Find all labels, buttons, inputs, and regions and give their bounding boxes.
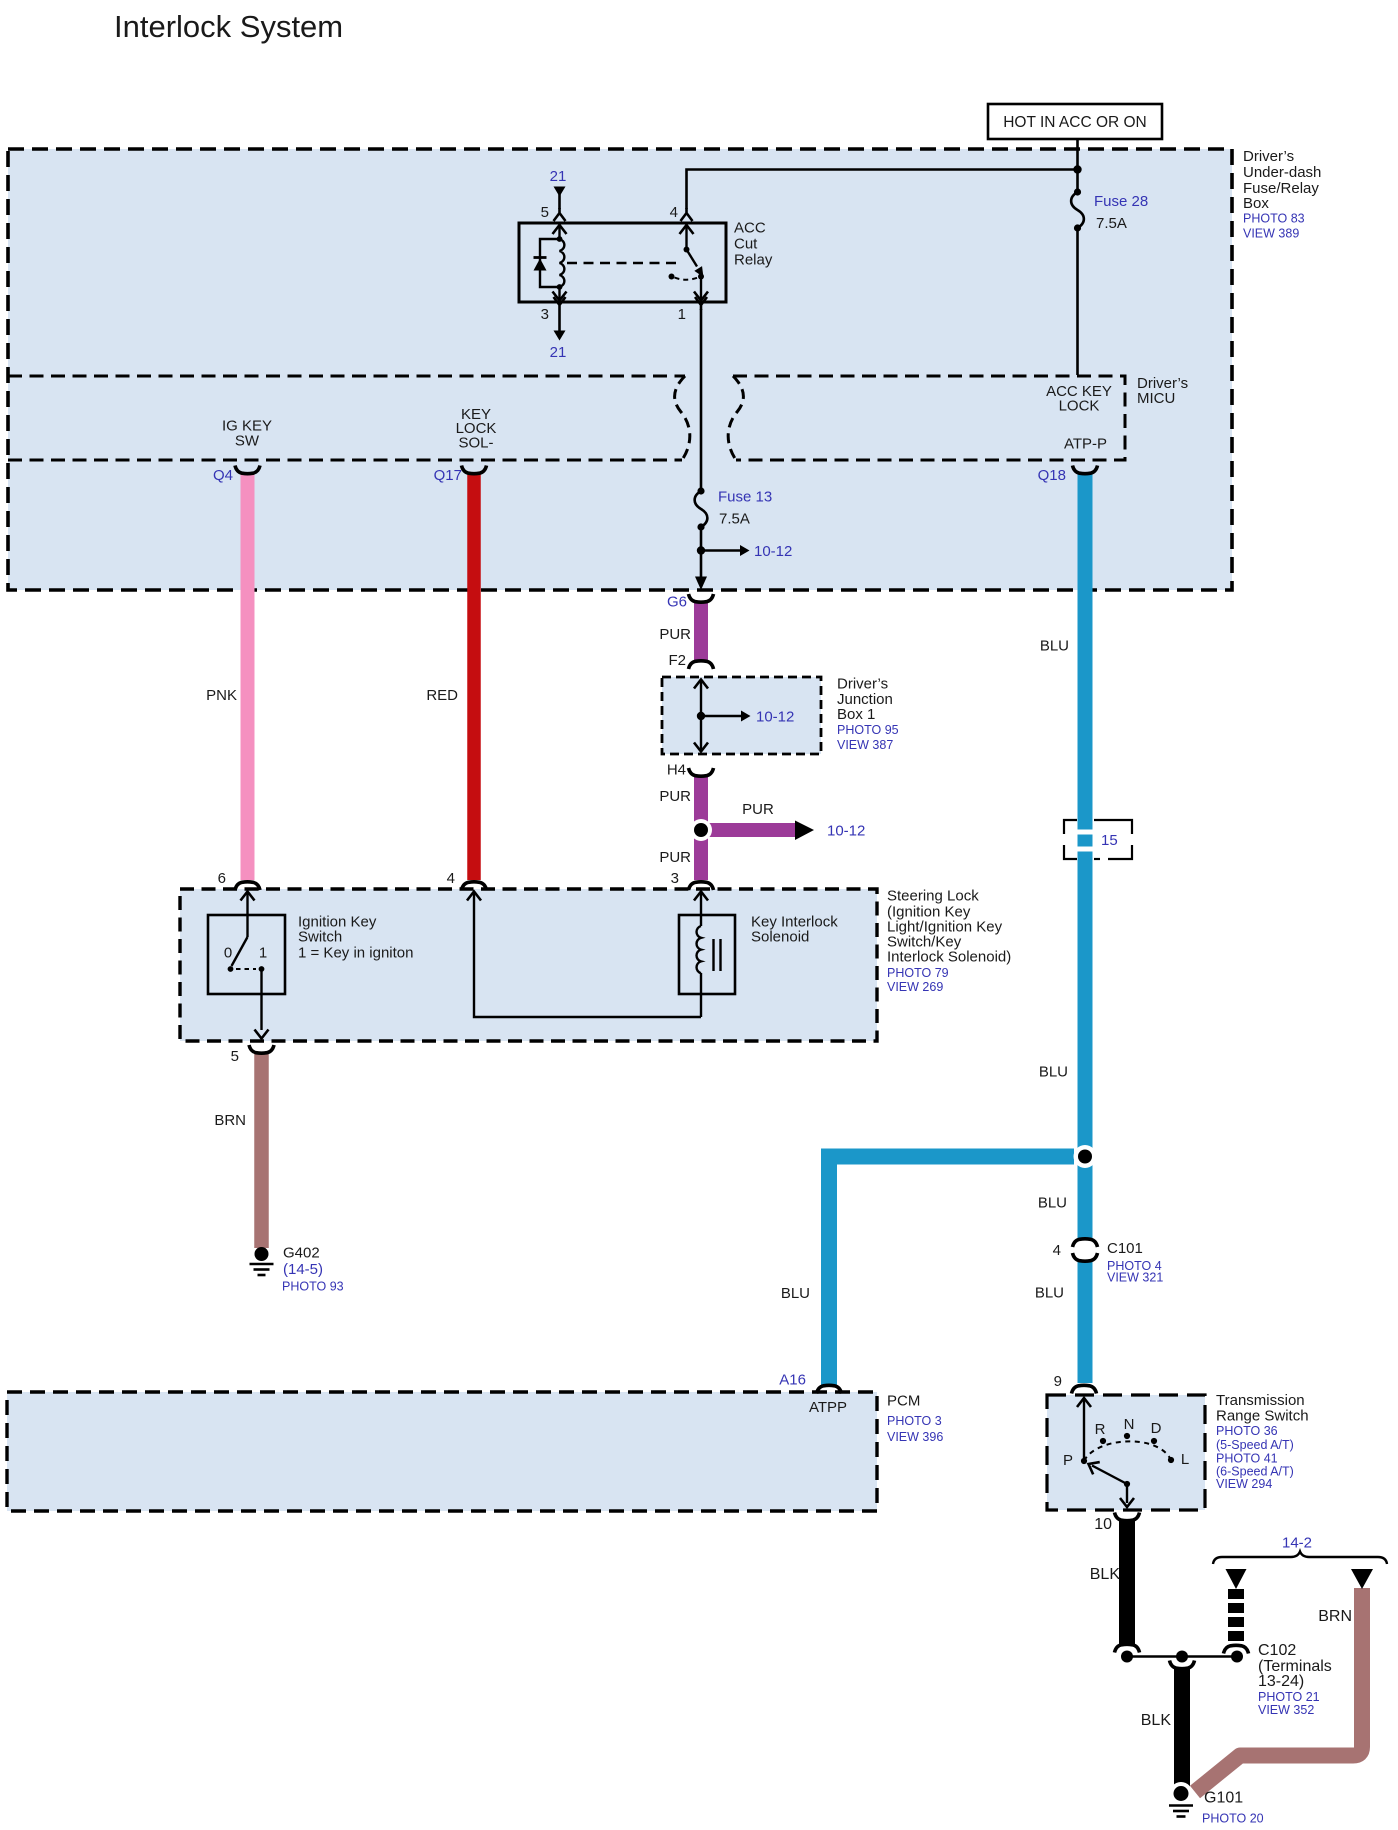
- svg-text:L: L: [1181, 1451, 1189, 1468]
- svg-text:Interlock Solenoid): Interlock Solenoid): [887, 949, 1011, 966]
- relay pin 1 connector: [695, 297, 707, 310]
- connector Transmission Range Switch pin 10: [1115, 1513, 1140, 1521]
- svg-text:1: 1: [259, 945, 267, 962]
- arrowhead BRN from 14-2: [1351, 1569, 1373, 1589]
- ground G101: [1169, 1782, 1193, 1817]
- svg-text:14-2: 14-2: [1282, 1535, 1312, 1552]
- svg-text:VIEW 387: VIEW 387: [837, 738, 893, 752]
- svg-text:13-24): 13-24): [1258, 1673, 1304, 1690]
- connector G6: [689, 594, 714, 602]
- svg-text:BLU: BLU: [1039, 1064, 1068, 1081]
- label Transmission Range Switch: [1216, 1392, 1309, 1491]
- wire PUR G6 to F2: [694, 602, 708, 661]
- svg-text:0: 0: [224, 945, 232, 962]
- svg-text:10-12: 10-12: [756, 709, 794, 726]
- svg-text:Transmission: Transmission: [1216, 1392, 1305, 1409]
- wire BLU Q18 to C101: [1078, 474, 1093, 1238]
- svg-text:PHOTO 20: PHOTO 20: [1202, 1812, 1264, 1826]
- wire BLU branch junction to PCM A16: [829, 1157, 1074, 1387]
- svg-text:21: 21: [550, 344, 567, 361]
- label Driver's Junction Box 1: [837, 676, 899, 753]
- svg-text:MICU: MICU: [1137, 390, 1175, 407]
- svg-text:BLU: BLU: [1040, 638, 1069, 655]
- label connector C101: [1053, 1240, 1164, 1285]
- connector Q4: [235, 466, 260, 474]
- node 10-12 tap below Fuse 13: [697, 545, 750, 556]
- svg-text:3: 3: [671, 870, 679, 887]
- arrow into G6: [695, 577, 707, 591]
- connector Q17: [462, 466, 487, 474]
- box Driver's Junction Box 1: [662, 677, 821, 754]
- svg-text:R: R: [1095, 1421, 1106, 1438]
- connector Q18: [1073, 466, 1098, 474]
- svg-text:1: 1: [678, 306, 686, 323]
- svg-text:Fuse 28: Fuse 28: [1094, 193, 1148, 210]
- connector F2: [689, 661, 714, 669]
- svg-text:PCM: PCM: [887, 1393, 920, 1410]
- svg-text:G6: G6: [667, 594, 687, 611]
- svg-text:ATPP: ATPP: [809, 1399, 847, 1416]
- wire C102 striped segment from 14-2: [1226, 1569, 1247, 1641]
- label Driver's MICU: [1137, 375, 1188, 407]
- fuse Fuse 28 7.5A: [1071, 188, 1084, 231]
- svg-text:PHOTO 95: PHOTO 95: [837, 723, 899, 737]
- label Steering Lock pins: [218, 870, 679, 887]
- svg-text:D: D: [1151, 1420, 1162, 1437]
- svg-text:4: 4: [447, 870, 455, 887]
- svg-text:5: 5: [231, 1048, 239, 1065]
- label Ignition Key Switch: [298, 914, 414, 962]
- svg-text:9: 9: [1054, 1373, 1062, 1390]
- svg-text:VIEW 352: VIEW 352: [1258, 1703, 1314, 1717]
- label Steering Lock: [887, 888, 1011, 995]
- wire Fuse 13 to G6 with 10-12 tap: [700, 527, 703, 578]
- svg-text:(5-Speed A/T): (5-Speed A/T): [1216, 1438, 1294, 1452]
- svg-text:Under-dash: Under-dash: [1243, 164, 1321, 181]
- svg-text:Q17: Q17: [434, 467, 462, 484]
- svg-text:1 = Key in igniton: 1 = Key in igniton: [298, 945, 414, 962]
- svg-text:4: 4: [670, 204, 678, 221]
- box PCM: [7, 1392, 877, 1511]
- label ACC Cut Relay: [734, 220, 773, 269]
- wire RED Q17 to Key Interlock Solenoid pin 4: [467, 474, 481, 880]
- label gear positions: [1063, 1416, 1189, 1469]
- ground G402: [250, 1247, 274, 1275]
- connector A16: [817, 1385, 842, 1393]
- svg-text:Box 1: Box 1: [837, 706, 875, 723]
- connector Steering Lock pin 5: [249, 1045, 274, 1053]
- svg-text:BLK: BLK: [1141, 1712, 1172, 1729]
- box Transmission Range Switch: [1047, 1395, 1205, 1510]
- wire BLK splice to G101: [1174, 1669, 1190, 1787]
- svg-text:BLU: BLU: [781, 1285, 810, 1302]
- junction dot at Fuse 28 tap: [1073, 165, 1081, 173]
- svg-text:3: 3: [541, 306, 549, 323]
- connector BLK wire end at splice: [1115, 1644, 1140, 1652]
- junction dot PUR with white ring: [690, 819, 712, 841]
- wire Fuse 28 to MICU ACC KEY LOCK: [1076, 228, 1079, 375]
- svg-text:ACC: ACC: [734, 220, 766, 237]
- svg-text:A16: A16: [779, 1372, 806, 1389]
- svg-text:5: 5: [541, 204, 549, 221]
- label Key Interlock Solenoid: [751, 914, 838, 946]
- svg-text:BLK: BLK: [1090, 1566, 1121, 1583]
- svg-text:PHOTO 3: PHOTO 3: [887, 1414, 942, 1428]
- svg-text:VIEW 396: VIEW 396: [887, 1430, 943, 1444]
- node HOT IN ACC OR ON: [988, 104, 1162, 139]
- label Driver's Under-dash Fuse/Relay Box: [1243, 148, 1321, 241]
- svg-text:SW: SW: [235, 433, 260, 450]
- svg-text:PHOTO 79: PHOTO 79: [887, 966, 949, 980]
- svg-text:F2: F2: [668, 652, 686, 669]
- connector Steering Lock pin 4: [462, 882, 487, 890]
- svg-text:PUR: PUR: [742, 801, 774, 818]
- svg-text:PNK: PNK: [206, 687, 237, 704]
- svg-text:PUR: PUR: [659, 626, 691, 643]
- relay coil: [553, 225, 567, 301]
- svg-text:10: 10: [1094, 1516, 1112, 1533]
- svg-text:Switch: Switch: [298, 929, 342, 946]
- svg-text:PUR: PUR: [659, 788, 691, 805]
- svg-text:G101: G101: [1204, 1790, 1243, 1807]
- svg-text:Cut: Cut: [734, 236, 758, 253]
- svg-text:PHOTO 41: PHOTO 41: [1216, 1452, 1278, 1466]
- svg-text:VIEW 321: VIEW 321: [1107, 1271, 1163, 1285]
- wire BRN from 14-2 to G101: [1195, 1588, 1362, 1792]
- relay pin 3 connector and 21 arrow: [554, 297, 566, 341]
- wire horizontal feed to relay pin 4: [687, 170, 1078, 210]
- wire splice line at C102: [1127, 1655, 1237, 1657]
- box Driver's Under-dash Fuse/Relay Box: [8, 149, 1232, 590]
- svg-text:4: 4: [1053, 1242, 1061, 1259]
- switch Transmission Range Switch contacts: [1077, 1398, 1174, 1507]
- label C102: [1258, 1642, 1332, 1717]
- svg-text:LOCK: LOCK: [1059, 398, 1100, 415]
- connector 15 brackets: [1064, 820, 1132, 859]
- label G101: [1202, 1790, 1264, 1826]
- box Steering Lock: [180, 889, 877, 1041]
- junction box internal wire with 10-12 tap: [694, 679, 751, 752]
- svg-text:Q4: Q4: [213, 467, 233, 484]
- label relay pin numbers: [541, 204, 686, 323]
- svg-text:Box: Box: [1243, 195, 1269, 212]
- svg-text:Range Switch: Range Switch: [1216, 1408, 1309, 1425]
- svg-text:C102: C102: [1258, 1642, 1296, 1659]
- svg-text:VIEW 389: VIEW 389: [1243, 227, 1299, 241]
- svg-text:Fuse 13: Fuse 13: [718, 489, 772, 506]
- svg-text:P: P: [1063, 1452, 1073, 1469]
- relay pin 5 connector and 21 arrow: [554, 187, 566, 222]
- relay ACC Cut Relay: [519, 223, 726, 302]
- relay clamping diode D1: [534, 239, 560, 287]
- wire PUR H4 to junction: [694, 776, 708, 830]
- svg-text:Driver’s: Driver’s: [1243, 148, 1294, 165]
- splice dots: [1121, 1651, 1133, 1663]
- svg-text:SOL-: SOL-: [458, 435, 493, 452]
- black arrowhead PUR 10-12: [795, 821, 814, 841]
- connector H4: [689, 768, 714, 776]
- svg-text:H4: H4: [667, 762, 686, 779]
- wire BLK Transmission Range Switch pin 10 to C102 splice: [1119, 1521, 1135, 1644]
- connector 15 white gaps in BLU wire: [1076, 830, 1094, 835]
- svg-text:Driver’s: Driver’s: [837, 676, 888, 693]
- svg-text:N: N: [1124, 1416, 1135, 1433]
- connector Steering Lock pin 6: [235, 882, 260, 890]
- svg-text:Interlock System: Interlock System: [114, 9, 343, 44]
- connector C102 striped wire end: [1224, 1645, 1249, 1653]
- wire HOT box down to Fuse 28: [1076, 139, 1079, 193]
- wire BLU C101 to Transmission Range Switch pin 9: [1078, 1261, 1093, 1383]
- svg-text:Q18: Q18: [1038, 467, 1066, 484]
- svg-text:RED: RED: [426, 687, 458, 704]
- svg-text:PHOTO 21: PHOTO 21: [1258, 1690, 1320, 1704]
- label ACC KEY LOCK: [1046, 383, 1112, 415]
- relay pin 4 connector: [681, 208, 693, 221]
- svg-text:10-12: 10-12: [827, 823, 865, 840]
- label switch positions 0 1: [224, 945, 267, 962]
- connector C101: [1073, 1239, 1098, 1261]
- junction dot BLU with white ring: [1074, 1145, 1097, 1168]
- label IG KEY SW: [222, 418, 272, 450]
- svg-text:C101: C101: [1107, 1240, 1143, 1257]
- svg-text:BLU: BLU: [1035, 1285, 1064, 1302]
- box Driver's MICU (right segment): [728, 376, 1125, 460]
- label Fuse 28: [1094, 193, 1148, 232]
- svg-text:PUR: PUR: [659, 849, 691, 866]
- solenoid Key Interlock Solenoid: [467, 892, 735, 1018]
- svg-text:(14-5): (14-5): [283, 1261, 323, 1278]
- connector Steering Lock pin 3: [689, 882, 714, 890]
- svg-text:10-12: 10-12: [754, 543, 792, 560]
- box Driver's MICU (left segment): [8, 376, 690, 460]
- svg-text:PHOTO 93: PHOTO 93: [282, 1280, 344, 1294]
- svg-text:Solenoid: Solenoid: [751, 929, 809, 946]
- svg-text:Relay: Relay: [734, 252, 773, 269]
- relay switch contacts: [669, 225, 709, 301]
- svg-text:7.5A: 7.5A: [719, 511, 750, 528]
- svg-text:ATP-P: ATP-P: [1064, 436, 1107, 453]
- svg-text:PHOTO 83: PHOTO 83: [1243, 212, 1305, 226]
- label KEY LOCK SOL-: [456, 406, 497, 452]
- label Fuse 13: [718, 489, 772, 528]
- svg-text:G402: G402: [283, 1245, 320, 1262]
- connector Transmission Range Switch pin 9: [1072, 1385, 1097, 1393]
- label PCM: [887, 1393, 943, 1445]
- relay actuation dashed link: [567, 262, 679, 264]
- wire relay pin 1 down to Fuse 13: [700, 309, 703, 492]
- svg-text:BRN: BRN: [214, 1112, 246, 1129]
- svg-text:21: 21: [550, 168, 567, 185]
- svg-text:15: 15: [1101, 832, 1118, 849]
- wire PNK Q4 to Ignition Key Switch pin 6: [241, 474, 255, 880]
- wire PUR branch to 10-12 arrow: [701, 823, 796, 837]
- svg-text:VIEW 294: VIEW 294: [1216, 1477, 1272, 1491]
- wire PUR junction to Steering Lock pin 3: [694, 830, 708, 880]
- switch Ignition Key Switch: [208, 892, 285, 1039]
- svg-text:PHOTO 36: PHOTO 36: [1216, 1424, 1278, 1438]
- fuse Fuse 13 7.5A: [695, 487, 708, 530]
- svg-text:6: 6: [218, 870, 226, 887]
- svg-text:BRN: BRN: [1318, 1608, 1352, 1625]
- svg-text:VIEW 269: VIEW 269: [887, 980, 943, 994]
- svg-text:HOT IN ACC OR ON: HOT IN ACC OR ON: [1003, 114, 1147, 131]
- svg-text:BLU: BLU: [1038, 1195, 1067, 1212]
- label G402: [282, 1245, 344, 1294]
- svg-text:Steering Lock: Steering Lock: [887, 888, 979, 905]
- connector BLK wire 2 top at splice: [1170, 1661, 1195, 1669]
- bracket 14-2: [1213, 1552, 1387, 1565]
- wire BRN Steering Lock pin 5 to G402: [254, 1053, 269, 1248]
- svg-text:7.5A: 7.5A: [1096, 215, 1127, 232]
